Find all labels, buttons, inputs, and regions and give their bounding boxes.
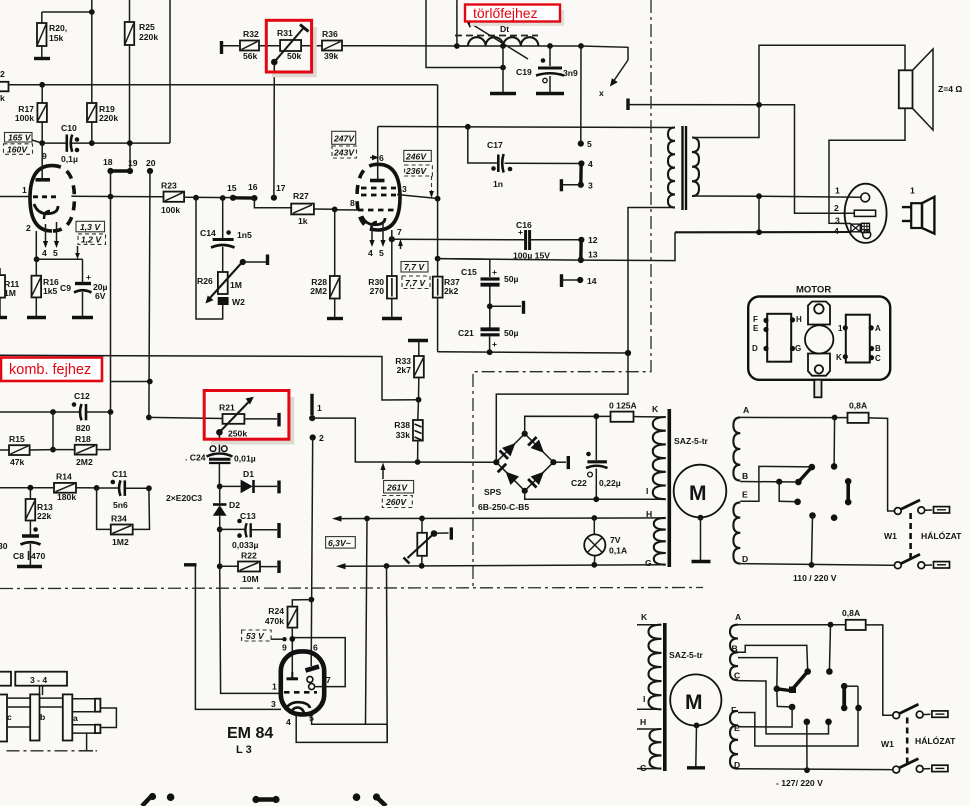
ground R16 <box>27 316 46 319</box>
svg-text:a: a <box>73 713 78 723</box>
resistor R16 <box>32 259 59 316</box>
selector lower lever <box>777 672 808 694</box>
svg-text:20: 20 <box>146 158 156 168</box>
tube EM84 pin7 circles <box>307 675 331 690</box>
svg-text:100k: 100k <box>15 113 34 123</box>
svg-text:C21: C21 <box>458 328 474 338</box>
nodes 15 16 bar <box>227 182 258 201</box>
svg-text:C: C <box>734 671 740 681</box>
capacitor C11 <box>97 469 149 510</box>
selector upper lever <box>798 464 815 482</box>
resistor R32 <box>240 29 259 61</box>
tube V1 envelope <box>30 166 52 231</box>
svg-text:F: F <box>731 705 736 715</box>
svg-text:H: H <box>640 717 646 727</box>
wire R23 row <box>71 195 163 198</box>
svg-text:E: E <box>742 490 748 500</box>
svg-text:4: 4 <box>588 159 593 169</box>
svg-text:W2: W2 <box>232 297 245 307</box>
selector lower B path <box>738 645 811 674</box>
output transformer T1 core <box>681 126 683 210</box>
wire bus x438 <box>437 85 439 277</box>
tube V2 envelope <box>357 164 378 230</box>
ground Dt <box>490 92 516 95</box>
resistor R22 <box>217 529 279 584</box>
motor M lower <box>670 674 721 767</box>
svg-text:HÁLÓZAT: HÁLÓZAT <box>915 735 956 746</box>
svg-text:R21: R21 <box>219 403 235 413</box>
svg-text:6,3V~: 6,3V~ <box>328 538 351 548</box>
svg-text:2M2: 2M2 <box>310 286 327 296</box>
svg-text:0,033µ: 0,033µ <box>232 540 259 550</box>
svg-text:W1: W1 <box>881 739 894 749</box>
node C19 top <box>547 43 553 49</box>
svg-text:30: 30 <box>0 541 8 551</box>
svg-text:C13: C13 <box>240 511 256 521</box>
svg-text:R15: R15 <box>9 434 25 444</box>
voltage box 7,7V <box>401 262 428 273</box>
mains transformer heater winding H-G <box>645 509 666 568</box>
svg-text:0,8A: 0,8A <box>849 401 867 411</box>
resistor R20 <box>37 12 67 58</box>
wire C15-C21 mid with stub <box>487 287 524 328</box>
svg-text:18: 18 <box>103 157 113 167</box>
resistor R13 <box>26 488 53 535</box>
tube V2 grid dashes pin8 <box>358 209 397 212</box>
svg-text:C8: C8 <box>13 551 24 561</box>
svg-text:470k: 470k <box>265 616 284 626</box>
voltage box 165V <box>5 133 41 143</box>
mains transformer lower primary A-B-C <box>730 612 741 681</box>
wire bridge plus row <box>525 416 611 434</box>
svg-text:13: 13 <box>588 250 598 260</box>
terminal stub pin3 EM84 <box>184 563 197 566</box>
mains transformer lower secondary K-I <box>637 612 662 709</box>
svg-text:MOTOR: MOTOR <box>796 285 831 296</box>
wire secondary to ground bar <box>758 196 760 232</box>
svg-text:R38: R38 <box>394 420 410 430</box>
svg-text:M: M <box>689 482 707 505</box>
node 13 <box>578 257 584 263</box>
svg-text:1: 1 <box>22 185 27 195</box>
node junction R20 top <box>89 9 95 15</box>
terminal bar R32 left <box>220 41 223 54</box>
selector upper E path <box>740 466 812 501</box>
wire R21 row <box>149 417 223 418</box>
wire node1 to bridge minus <box>312 418 496 462</box>
selector lower E path <box>738 707 792 727</box>
wire speaker return <box>829 108 905 223</box>
trimmer capacitor C19 <box>516 46 578 93</box>
ground C9 <box>72 316 93 319</box>
svg-text:C19: C19 <box>516 67 532 77</box>
svg-text:4: 4 <box>834 226 839 236</box>
svg-text:b: b <box>40 712 45 722</box>
node switch feed <box>578 43 584 49</box>
tube EM84 envelope <box>281 651 324 714</box>
svg-text:3: 3 <box>271 699 276 709</box>
red highlight box R31 <box>266 20 315 75</box>
switch mains lower pole2 <box>893 759 948 773</box>
svg-text:1: 1 <box>317 403 322 413</box>
voltage box 160V <box>4 144 33 155</box>
mains transformer lower heater H-G <box>637 717 662 773</box>
trimmer resistor heater <box>404 518 452 565</box>
svg-text:R24: R24 <box>268 606 284 616</box>
selector lower A riser <box>826 625 833 675</box>
svg-text:R23: R23 <box>161 181 177 191</box>
capacitor C22 <box>571 416 621 499</box>
resistor R19 <box>87 103 118 143</box>
selector lower branch to contact <box>738 658 780 693</box>
svg-text:247V: 247V <box>333 134 355 144</box>
svg-text:246V: 246V <box>405 152 427 162</box>
MOTOR box <box>748 285 890 398</box>
wire bridge y381 <box>111 381 151 383</box>
bar node4-node3 <box>579 164 583 185</box>
svg-text:D1: D1 <box>243 469 254 479</box>
external speaker 1 <box>902 186 935 234</box>
motor M upper <box>674 465 727 562</box>
switch mains upper lower pole <box>894 554 949 568</box>
output transformer primary winding <box>668 128 675 208</box>
svg-text:I: I <box>643 694 645 704</box>
svg-text:0,1A: 0,1A <box>609 546 627 556</box>
voltage box 247V <box>332 131 356 144</box>
svg-text:1: 1 <box>272 682 277 692</box>
svg-text:10M: 10M <box>242 574 259 584</box>
svg-text:K: K <box>836 353 842 362</box>
arrow 236V measure <box>429 191 434 198</box>
svg-text:R14: R14 <box>56 472 72 482</box>
wire erase-head riser x457 <box>456 0 458 46</box>
potentiometer R31 <box>271 25 309 66</box>
svg-text:15: 15 <box>227 183 237 193</box>
svg-text:K: K <box>652 404 659 414</box>
coil Dt adjustable core dashes <box>455 35 538 37</box>
tube V2 pin6 arrow <box>370 153 384 163</box>
tube V2 cathode <box>362 216 385 225</box>
output transformer secondary winding <box>692 138 699 197</box>
wire pin7 row to C16 <box>392 238 524 241</box>
svg-text:1M: 1M <box>4 288 16 298</box>
svg-text:F: F <box>753 315 758 324</box>
svg-text:39k: 39k <box>324 51 339 61</box>
svg-text:M: M <box>685 691 703 714</box>
node 7 V2 <box>389 236 395 242</box>
voltage box 1,2V <box>75 234 105 259</box>
resistor R38 <box>394 400 423 462</box>
resistor R15 <box>0 434 53 467</box>
node 17 <box>271 195 277 201</box>
mains transformer upper primary E-D <box>733 490 748 565</box>
capacitor C16 <box>513 220 581 261</box>
svg-text:D2: D2 <box>229 500 240 510</box>
svg-text:0,8A: 0,8A <box>842 608 860 618</box>
svg-text:2k2: 2k2 <box>444 286 459 296</box>
switch link W1 lower <box>906 718 909 767</box>
resistor R37 <box>433 277 460 352</box>
svg-text:165 V: 165 V <box>8 133 32 143</box>
svg-text:- 127/ 220 V: - 127/ 220 V <box>776 778 823 788</box>
svg-text:1k5: 1k5 <box>43 286 58 296</box>
wire C15 feed <box>438 259 490 277</box>
capacitor C17 <box>468 127 582 189</box>
svg-text:D: D <box>742 554 748 564</box>
resistor R18 <box>53 412 110 467</box>
svg-text:8: 8 <box>350 198 355 208</box>
node 4 <box>578 160 584 166</box>
mechanism shaft plates <box>0 695 7 742</box>
capacitor C14 <box>200 198 252 248</box>
svg-text:k: k <box>0 93 5 103</box>
svg-text:17: 17 <box>276 183 286 193</box>
red label box torlofejhez <box>465 5 563 25</box>
svg-text:1,2 V: 1,2 V <box>81 235 102 245</box>
mains transformer core upper <box>667 409 671 567</box>
node terminal 1 <box>309 394 322 421</box>
diode D1 <box>220 469 279 493</box>
svg-text:0,22µ: 0,22µ <box>599 478 621 488</box>
svg-text:4: 4 <box>42 248 47 258</box>
svg-text:1: 1 <box>838 324 843 333</box>
terminal stub bridge right <box>553 456 568 469</box>
wire C12 left riser <box>52 412 54 450</box>
mechanism dash-dot <box>7 750 98 752</box>
wire R14 row left <box>0 487 54 489</box>
tube EM84 grid electrode <box>287 672 299 679</box>
svg-text:C: C <box>875 354 881 363</box>
svg-text:SAZ-5-tr: SAZ-5-tr <box>669 650 704 660</box>
svg-text:R20,: R20, <box>49 23 67 33</box>
mechanism switch box 3-4 <box>0 672 116 751</box>
voltage box 243V <box>332 146 357 158</box>
selector lower contact branch 2 <box>777 689 796 711</box>
selector lower right lever <box>841 683 858 711</box>
svg-text:A: A <box>743 405 749 415</box>
capacitor C13 <box>220 511 279 550</box>
svg-text:220k: 220k <box>99 113 118 123</box>
DIN pin 4 <box>851 223 871 238</box>
resistor R12 (partial at edge) <box>0 69 9 103</box>
svg-text:C11: C11 <box>112 469 128 479</box>
svg-text:R27: R27 <box>293 191 309 201</box>
svg-text:33k: 33k <box>396 430 411 440</box>
selector upper spare contact <box>831 514 838 521</box>
svg-text:15k: 15k <box>49 33 64 43</box>
svg-text:K: K <box>641 612 648 622</box>
mains transformer upper secondary K-I <box>646 417 666 499</box>
svg-text:törlőfejhez: törlőfejhez <box>473 5 538 21</box>
tube EM84 target anode <box>306 667 320 671</box>
wire DIN pin4 ground line <box>675 231 851 233</box>
svg-text:110 / 220 V: 110 / 220 V <box>793 573 837 583</box>
svg-text:W1: W1 <box>884 531 897 541</box>
wire riser x426 to gnd row <box>426 0 503 68</box>
svg-text:3: 3 <box>835 216 840 226</box>
svg-text:270: 270 <box>370 286 385 296</box>
svg-text:3 - 4: 3 - 4 <box>30 675 47 685</box>
svg-text:243V: 243V <box>333 148 355 158</box>
capacitor C9 <box>60 259 108 316</box>
capacitor C15 <box>461 267 519 285</box>
selector lower D contact riser <box>804 719 811 774</box>
svg-text:3: 3 <box>588 181 593 191</box>
node 12 <box>578 237 584 243</box>
wire head line y355 <box>0 355 419 400</box>
tube V2 heater pins 4 5 <box>368 221 386 258</box>
wire vertical bus x170 <box>169 0 171 143</box>
svg-text:3: 3 <box>402 184 407 194</box>
wire B- return path <box>496 353 628 462</box>
loudspeaker Z=4 <box>899 49 963 130</box>
wire EM84 pin1 riser <box>220 566 282 693</box>
DIN connector socket <box>834 184 887 243</box>
fuse 0125A <box>609 401 663 422</box>
tube EM84 heater pins 4 5 <box>286 519 387 743</box>
svg-text:SAZ-5-tr: SAZ-5-tr <box>674 436 709 446</box>
svg-text:5: 5 <box>53 248 58 258</box>
capacitor C10 <box>61 123 79 164</box>
switch x arrow <box>599 60 628 98</box>
potentiometer R21 <box>216 397 279 439</box>
switch mains upper <box>894 500 949 514</box>
wire vertical bus x92 <box>91 0 93 103</box>
voltage box 1,3V <box>76 221 105 232</box>
tube V1 grid line pin1 <box>0 196 31 198</box>
selector upper A contact <box>831 418 838 470</box>
svg-text:0,1µ: 0,1µ <box>61 154 78 164</box>
node Dt tap <box>500 43 506 49</box>
wire vertical bus x130 <box>129 0 131 22</box>
node R17 top <box>39 82 45 88</box>
terminal bar x-switch target <box>626 99 629 111</box>
wire x-switch to DIN pin2 <box>628 105 854 214</box>
svg-text:C22: C22 <box>571 478 587 488</box>
wire A row with fuse 0,8A lower <box>738 608 893 715</box>
svg-text:E: E <box>753 324 759 333</box>
svg-text:A: A <box>875 324 881 333</box>
selector upper D contact riser <box>809 512 816 568</box>
wire D row upper <box>740 564 895 566</box>
svg-text:1M2: 1M2 <box>112 537 129 547</box>
svg-text:C14: C14 <box>200 228 216 238</box>
svg-text:7: 7 <box>326 675 331 685</box>
svg-text:2: 2 <box>0 69 5 79</box>
svg-text:180k: 180k <box>57 492 76 502</box>
svg-text:1,3 V: 1,3 V <box>80 222 101 232</box>
wire B+ rail y85 <box>9 84 438 86</box>
svg-text:R34: R34 <box>111 514 127 524</box>
capacitor C8 <box>13 527 46 565</box>
wire node13 to DIN ground <box>438 232 675 260</box>
svg-text:0,01µ: 0,01µ <box>234 454 256 464</box>
svg-text:12: 12 <box>588 235 598 245</box>
svg-text:R22: R22 <box>241 551 257 561</box>
node 14 terminal <box>562 274 597 287</box>
resistor R30 <box>368 239 397 317</box>
wire EM84 pin7 feedback loop <box>294 638 345 687</box>
wire EM84 pin6 riser <box>311 438 313 667</box>
svg-text:4: 4 <box>368 248 373 258</box>
svg-text:260V: 260V <box>385 497 407 507</box>
svg-text:2: 2 <box>834 203 839 213</box>
coil Dt <box>457 24 581 46</box>
svg-text:56k: 56k <box>243 51 258 61</box>
capacitor C12 <box>53 391 111 433</box>
svg-text:R18: R18 <box>75 434 91 444</box>
svg-text:9: 9 <box>282 643 287 653</box>
selector upper B line <box>740 479 801 486</box>
svg-text:B: B <box>875 344 881 353</box>
svg-text:4: 4 <box>286 717 291 727</box>
svg-text:1n: 1n <box>493 179 503 189</box>
svg-text:E: E <box>734 723 740 733</box>
voltage box 6,3V <box>326 537 356 549</box>
heater line 6.3V bottom <box>336 562 663 569</box>
wire bridge minus row <box>525 491 663 499</box>
svg-text:c: c <box>7 712 12 722</box>
node R26 loop top <box>193 195 199 201</box>
lamp 7V 0,1A <box>584 518 627 565</box>
svg-text:2: 2 <box>26 223 31 233</box>
capacitor C21 <box>458 328 519 352</box>
svg-text:1k: 1k <box>298 216 308 226</box>
wire to switch x <box>581 46 628 60</box>
bottom cropped marks <box>142 793 386 806</box>
node 20 <box>147 168 153 174</box>
wire R26 loop <box>196 198 223 319</box>
capacitor C24 <box>185 432 256 486</box>
node 3 <box>578 182 584 188</box>
mains transformer upper primary A-B <box>733 405 749 481</box>
svg-text:5n6: 5n6 <box>113 500 128 510</box>
node 5 <box>578 141 584 147</box>
resistor R33 <box>395 341 424 400</box>
svg-text:100k: 100k <box>161 205 180 215</box>
svg-text:1: 1 <box>910 186 915 196</box>
wire node19 riser <box>129 143 131 171</box>
svg-text:R26: R26 <box>197 276 213 286</box>
svg-text:A: A <box>735 612 741 622</box>
svg-text:B: B <box>742 471 748 481</box>
tube V1 heater pins 4 5 <box>42 222 59 258</box>
wire OT secondary top <box>692 105 759 138</box>
selector lower C path <box>738 681 832 734</box>
svg-text:+: + <box>86 272 91 282</box>
coil Dt arrow <box>466 21 528 60</box>
node terminal 2 <box>310 433 324 443</box>
svg-text:6: 6 <box>379 153 384 163</box>
arrow 7,7V measure <box>398 239 403 249</box>
svg-text:G: G <box>795 344 801 353</box>
tube V2 anode <box>377 127 379 180</box>
svg-text:160V: 160V <box>7 145 28 155</box>
terminal bar R33 top <box>408 339 428 342</box>
svg-text:820: 820 <box>76 423 91 433</box>
svg-text:7,7 V: 7,7 V <box>405 278 426 288</box>
svg-text:komb. fejhez: komb. fejhez <box>9 362 91 378</box>
svg-text:R32: R32 <box>243 29 259 39</box>
svg-text:6V: 6V <box>95 291 106 301</box>
svg-text:6: 6 <box>313 643 318 653</box>
svg-text:16: 16 <box>248 182 258 192</box>
svg-text:+: + <box>492 267 497 277</box>
svg-text:L 3: L 3 <box>236 744 252 756</box>
mains transformer lower primary F-E-D <box>730 705 740 770</box>
svg-text:53 V: 53 V <box>246 631 265 641</box>
tube V1 anode <box>41 143 43 178</box>
